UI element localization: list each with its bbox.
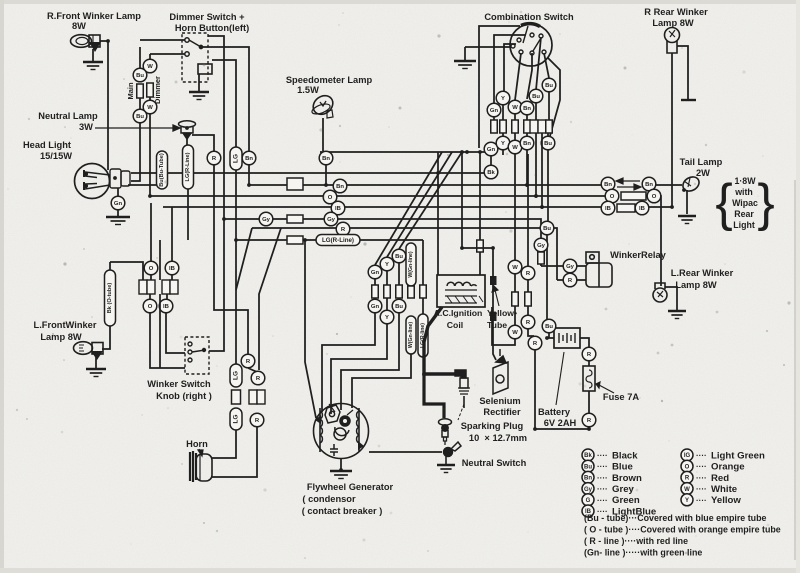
wire stub: [526, 115, 528, 120]
wire dimmer in main: [140, 39, 185, 41]
wire Y to bus: [502, 149, 504, 155]
wire bus red B6: [252, 228, 557, 280]
node Y comb row1: [496, 91, 510, 105]
wire stub coil top: [479, 252, 481, 275]
node Bn comb row2: [520, 136, 534, 150]
svg-text:Light: Light: [733, 220, 755, 230]
node Bu battery: [542, 319, 556, 333]
svg-text:( contact breaker ): ( contact breaker ): [302, 506, 383, 516]
wire headlight ground stem: [117, 210, 119, 217]
svg-text:Black: Black: [612, 450, 638, 461]
wire horn button out LG: [212, 60, 236, 147]
wire diagonal Y coil: [387, 152, 452, 257]
wire stub: [422, 298, 424, 314]
svg-text:L.FrontWinker: L.FrontWinker: [34, 320, 97, 330]
capsule LG pair lower: [230, 408, 242, 430]
node R bus: [336, 222, 350, 236]
connector on Bn bus: [287, 178, 303, 190]
lamp L rear winker: [653, 283, 667, 302]
wire Y to flywheel: [331, 324, 387, 414]
node W comb row2: [508, 140, 522, 154]
wire L rear winker to ground: [665, 287, 677, 310]
wire W chain upper: [514, 154, 516, 260]
svg-text:2W: 2W: [696, 168, 710, 178]
wire HT lead thick: [424, 307, 456, 374]
wire comb to LBu bus: [541, 133, 543, 207]
AC ignition coil box: [437, 275, 485, 307]
svg-text:lB: lB: [639, 206, 645, 212]
lamp R rear winker: [665, 28, 680, 54]
svg-text:Winker Switch: Winker Switch: [147, 379, 211, 389]
svg-text:Bu: Bu: [532, 94, 540, 100]
arrow yellow tube 1: [492, 286, 499, 306]
svg-text:}: }: [757, 174, 774, 232]
node Bu coil lower: [392, 299, 406, 313]
svg-text:LG: LG: [233, 154, 240, 163]
node Gy bus left: [259, 212, 273, 226]
svg-text:R: R: [255, 418, 260, 424]
legend Green: [582, 494, 594, 506]
svg-text:Gn: Gn: [487, 147, 496, 153]
node Bn left: [242, 151, 256, 165]
svg-text:Light Green: Light Green: [711, 450, 765, 461]
wire comb Bu drop: [544, 53, 549, 78]
svg-text:Rear: Rear: [734, 209, 754, 219]
svg-text:8W: 8W: [72, 21, 86, 31]
combination switch contacts: [511, 24, 546, 55]
svg-text:lG: lG: [684, 453, 691, 459]
node Gy relay: [563, 259, 577, 273]
svg-text:Main: Main: [126, 82, 135, 100]
node Bu comb row2: [541, 136, 555, 150]
node Y coil upper: [380, 257, 394, 271]
svg-text:R: R: [341, 227, 346, 233]
flywheel generator circle: [314, 404, 369, 459]
node Bk: [484, 165, 498, 179]
node R pair mid: [251, 371, 265, 385]
node R pair lower: [250, 413, 264, 427]
wire coil top-right feed: [479, 152, 481, 240]
fuse 7A: [583, 366, 595, 391]
wire stub: [527, 306, 529, 315]
neutral switch symbol: [444, 442, 462, 464]
wire stub: [526, 133, 528, 137]
node Gy bus: [324, 212, 338, 226]
wire LBu stub: [171, 207, 173, 214]
wire LBu drop: [171, 214, 173, 261]
wire comb Bu mid drop: [536, 37, 541, 90]
wire stub: [588, 427, 590, 429]
wire Bu down to battery region: [546, 235, 548, 319]
connector O tail: [621, 192, 646, 200]
wire Bu to flywheel: [341, 313, 399, 410]
combination switch circle: [510, 24, 552, 66]
node W right upper: [508, 260, 522, 274]
svg-text:Neutral Lamp: Neutral Lamp: [38, 111, 98, 121]
wire coil top-left feed: [437, 152, 439, 275]
battery 6V 2AH: [554, 328, 580, 348]
wire Bn down to bus: [248, 165, 250, 185]
wire Bu main upper: [139, 47, 141, 68]
wire stub: [171, 275, 173, 280]
wire dimmer ground stem: [198, 74, 200, 92]
node Gy drop: [534, 238, 548, 252]
svg-text:Sparking Plug: Sparking Plug: [461, 421, 524, 431]
node R right upper: [521, 266, 535, 280]
svg-text:W: W: [147, 64, 153, 70]
svg-text:Dimmer Switch +: Dimmer Switch +: [169, 12, 245, 22]
legend Red: [681, 471, 693, 483]
svg-text:Y: Y: [501, 96, 505, 102]
ground flywheel: [330, 471, 352, 479]
wire neutral lamp down: [186, 139, 188, 145]
node Bn bus: [333, 179, 347, 193]
arrow fuse leader: [596, 382, 614, 393]
wire Bu down: [547, 149, 549, 221]
svg-text:Bu: Bu: [395, 304, 403, 310]
svg-text:R: R: [246, 359, 251, 365]
node R right lower: [521, 315, 535, 329]
svg-text:Bu: Bu: [545, 83, 553, 89]
wire R chain upper: [527, 154, 529, 266]
wire stub: [514, 114, 516, 120]
node R relay: [563, 273, 577, 287]
wire left feed upper: [304, 240, 306, 318]
wire LBu to winker switch: [166, 313, 185, 353]
svg-text:Green: Green: [612, 495, 640, 506]
connector dimmer wire: [147, 83, 154, 97]
wire speedometer down: [322, 118, 324, 151]
svg-text:lB: lB: [163, 304, 169, 310]
svg-text:White: White: [711, 484, 737, 495]
wire combination switch ground link: [465, 46, 510, 48]
svg-text:Bn: Bn: [645, 182, 653, 188]
svg-text:R: R: [533, 341, 538, 347]
wire R rear winker to ground: [677, 46, 688, 100]
wire stub: [514, 306, 516, 325]
svg-text:Bn: Bn: [523, 106, 531, 112]
svg-text:Coil: Coil: [447, 320, 463, 330]
svg-text:R Rear Winker: R Rear Winker: [644, 7, 708, 17]
svg-text:Bn: Bn: [523, 141, 531, 147]
svg-text:G: G: [586, 498, 591, 504]
wire diagonal R: [259, 228, 281, 370]
wire Bu mid: [139, 98, 141, 109]
ground head light: [106, 217, 130, 225]
svg-text:Selenium: Selenium: [479, 396, 520, 406]
node R fuse upper: [582, 347, 596, 361]
node O pair upper: [144, 261, 158, 275]
connector comb 5: [530, 120, 546, 133]
svg-text:Flywheel Generator: Flywheel Generator: [307, 482, 394, 492]
wire Bu to battery: [549, 333, 554, 338]
wire combination ground stem: [464, 47, 466, 61]
svg-text:····: ····: [696, 496, 707, 505]
svg-text:R: R: [685, 476, 690, 482]
condenser: [330, 444, 338, 456]
svg-text:15/15W: 15/15W: [40, 151, 72, 161]
node Bn tail left: [601, 177, 615, 191]
capsule LG R-Line left: [183, 145, 194, 189]
ground combination switch: [454, 61, 476, 69]
svg-text:Bu: Bu: [136, 73, 144, 79]
wire stub: [374, 279, 376, 285]
svg-text:10 × 12.7mm: 10 × 12.7mm: [469, 433, 527, 443]
wire stub: [527, 280, 529, 292]
svg-text:R: R: [256, 376, 261, 382]
neutral lamp symbol: [179, 121, 196, 139]
svg-text:W(Gn-line): W(Gn-line): [408, 251, 414, 277]
spark plug cap: [455, 370, 470, 408]
node LBu tail left: [601, 201, 615, 215]
wire capsule to L front winker: [102, 326, 110, 349]
wire battery bottom loop: [535, 350, 589, 429]
node O bus: [323, 190, 337, 204]
wire capsule top stub: [109, 262, 111, 270]
wire stub: [514, 274, 516, 292]
horn symbol: [190, 451, 212, 482]
wire tail lamp ground stem: [686, 190, 688, 214]
connector Gy drop: [538, 252, 545, 264]
svg-text:····: ····: [597, 451, 608, 460]
svg-text:W(Gn-line): W(Gn-line): [408, 322, 414, 348]
svg-text:W: W: [684, 487, 690, 493]
svg-text:(Gn- line )·····with green l: (Gn- line )·····with green line: [584, 548, 702, 558]
wire W mid: [149, 97, 151, 100]
winker switch contacts: [188, 342, 206, 362]
node Bu comb row1 outer: [542, 78, 556, 92]
svg-text:Blue: Blue: [612, 462, 633, 473]
svg-text:Bn: Bn: [336, 184, 344, 190]
svg-text:Gn: Gn: [371, 304, 380, 310]
connector main wire: [137, 84, 144, 98]
wire left feed to flywheel: [305, 318, 316, 418]
svg-text:Bu: Bu: [544, 141, 552, 147]
capsule W Gn-line upper: [406, 243, 416, 286]
contact breaker: [325, 404, 353, 440]
ground L front winker: [86, 369, 106, 377]
wire bus light-blue B4: [163, 206, 602, 208]
svg-text:O: O: [149, 266, 154, 272]
svg-text:Bk: Bk: [584, 453, 592, 459]
node Bu comb row1: [529, 89, 543, 103]
capsule LG R-Line bus: [316, 235, 360, 246]
wire bus brown to tail lamp: [656, 184, 682, 186]
node Bn comb row1: [520, 101, 534, 115]
svg-text:····: ····: [597, 496, 608, 505]
wire capsule to connector: [110, 262, 143, 280]
wire R jog: [248, 368, 257, 384]
wire bus orange B3: [150, 195, 616, 197]
connector LBu tail: [617, 204, 635, 212]
wire bus grey B5: [224, 219, 541, 238]
wire Gy stub: [540, 264, 542, 266]
connector comb 3: [512, 120, 519, 133]
svg-text:Y: Y: [501, 141, 505, 147]
wire O drop: [150, 203, 152, 261]
ground L rear winker: [668, 311, 686, 319]
capsule Bk O-tube: [105, 270, 116, 326]
svg-text:Fuse 7A: Fuse 7A: [603, 392, 639, 402]
svg-text:Head Light: Head Light: [23, 140, 71, 150]
wire bus upper: [320, 151, 489, 153]
wire stub: [502, 105, 504, 120]
ground R rear winker: [681, 99, 696, 101]
wire Gn to flywheel: [322, 313, 375, 412]
wire Bn to Bn bus: [526, 149, 528, 185]
svg-text:····: ····: [696, 485, 707, 494]
wire R down and jog: [214, 165, 248, 355]
node Bu mid: [540, 221, 554, 235]
svg-text:Orange: Orange: [711, 462, 745, 473]
wire L front winker ground stem: [95, 355, 97, 368]
svg-text:Tail Lamp: Tail Lamp: [680, 157, 723, 167]
svg-text:O: O: [328, 195, 333, 201]
svg-text:O: O: [685, 464, 690, 470]
svg-text:Gn: Gn: [371, 270, 380, 276]
node R fuse lower: [582, 413, 596, 427]
junction dots: [148, 194, 152, 198]
svg-text:Bn: Bn: [604, 182, 612, 188]
svg-text:W: W: [512, 105, 518, 111]
wire stub: [547, 133, 549, 137]
svg-text:Battery: Battery: [538, 407, 571, 417]
wire bus brown B2: [249, 184, 601, 186]
leader battery label: [556, 352, 564, 405]
connector W right: [512, 292, 519, 306]
svg-text:lB: lB: [335, 206, 341, 212]
node W right lower: [508, 325, 522, 339]
wire horn button to Gy bus: [208, 36, 224, 219]
wire dimmer in beam: [150, 53, 185, 55]
node Bu lower: [133, 109, 147, 123]
svg-text:Bu: Bu: [543, 226, 551, 232]
wire O to winker switch: [150, 313, 185, 368]
svg-text:L.Rear Winker: L.Rear Winker: [671, 268, 734, 278]
arrow yellow tube 2: [490, 318, 494, 320]
svg-text:Bu: Bu: [395, 254, 403, 260]
connector comb 6: [546, 120, 553, 133]
node Gn coil lower: [368, 299, 382, 313]
wire headlight low beam: [128, 184, 157, 186]
svg-text:Gy: Gy: [262, 217, 271, 223]
wire W to coil: [492, 307, 515, 345]
svg-text:R.Front Winker Lamp: R.Front Winker Lamp: [47, 11, 141, 21]
node Gn coil upper: [368, 265, 382, 279]
svg-text:O: O: [652, 194, 657, 200]
head light circle: [75, 164, 110, 199]
svg-text:R: R: [587, 352, 592, 358]
connector on LG bus: [287, 236, 303, 244]
capsule W Gn-line lower: [406, 316, 416, 354]
wire bus white headlight-to-Bk: [131, 172, 488, 174]
svg-text:Bn: Bn: [584, 476, 592, 482]
wire Gy to relay: [541, 265, 586, 267]
leader sparking plug: [458, 404, 464, 420]
tube marker 2: [490, 312, 497, 321]
wire stub: [514, 133, 516, 141]
svg-text:····: ····: [597, 485, 608, 494]
wire diagonal LG: [236, 228, 252, 290]
speedometer lamp symbol: [309, 92, 336, 118]
wire headlight ground feed: [117, 188, 119, 196]
wire W upper stub: [149, 54, 151, 59]
wire comb to O bus: [535, 133, 537, 196]
wire R jog: [528, 329, 534, 336]
svg-text:W: W: [512, 265, 518, 271]
svg-text:Bu: Bu: [136, 114, 144, 120]
connector R pair: [249, 390, 265, 404]
svg-text:(Bu - tube)···Covered with blu: (Bu - tube)···Covered with blue empire t…: [584, 513, 766, 523]
selenium rectifier symbol: [493, 349, 508, 394]
node R left: [207, 151, 221, 165]
node Bu coil upper: [392, 249, 406, 263]
connector comb 1: [491, 120, 498, 133]
wire LG R-line down: [187, 189, 189, 240]
wire R front winker to ground: [92, 49, 94, 62]
svg-text:R: R: [568, 278, 573, 284]
lamp L front winker: [74, 342, 104, 360]
svg-text:1·8W: 1·8W: [734, 176, 756, 186]
wire bus LG R-line B7 left: [236, 239, 316, 241]
arrow horn leader: [198, 449, 203, 456]
connector R right: [525, 292, 532, 306]
wire Gn row2 to Bk: [490, 156, 492, 165]
wire passthrough upper: [159, 240, 161, 280]
svg-text:O: O: [148, 304, 153, 310]
svg-text:Yellow: Yellow: [711, 495, 741, 506]
svg-text:R: R: [526, 320, 531, 326]
svg-text:Y: Y: [385, 262, 389, 268]
connector coil 2: [384, 285, 391, 298]
capsule LG: [230, 147, 242, 170]
svg-text:Lamp 8W: Lamp 8W: [652, 18, 694, 28]
wire diagonal Bu coil: [399, 152, 462, 249]
wire winker switch to Gy bus: [209, 219, 224, 351]
connector coil 3: [396, 285, 403, 298]
connector coil 4: [408, 286, 415, 298]
wire R front winker feed: [100, 41, 108, 170]
ground neutral switch: [437, 465, 455, 473]
node Y comb row2: [496, 136, 510, 150]
svg-text:Wipac: Wipac: [732, 198, 758, 208]
ground R front winker: [83, 62, 103, 70]
wire stub: [548, 92, 550, 120]
wire W down to bus: [149, 114, 151, 196]
wire stub: [166, 294, 168, 299]
wire diagonal Gn coil: [375, 152, 442, 265]
sparking plug symbol: [439, 419, 452, 445]
wire stub: [535, 103, 537, 120]
connector coil 5: [420, 285, 427, 298]
node W comb row1: [508, 100, 522, 114]
svg-text:W: W: [512, 330, 518, 336]
svg-text:Rectifier: Rectifier: [483, 407, 521, 417]
legend Blue: [582, 460, 594, 472]
wire comb bracket inner: [494, 35, 526, 103]
svg-text:R: R: [212, 156, 217, 162]
node Y coil lower: [380, 310, 394, 324]
wire stub: [150, 275, 152, 280]
wire Bu to headlight: [131, 123, 140, 181]
wire LG R-line drop: [422, 240, 424, 285]
wire stub: [502, 133, 504, 137]
svg-text:Combination Switch: Combination Switch: [484, 12, 574, 22]
wire bus LG R-line B7 right: [360, 239, 423, 241]
wire light-blue to R winker drop: [649, 206, 672, 208]
svg-text:LG: LG: [233, 415, 240, 424]
connector LG pair: [232, 390, 241, 404]
